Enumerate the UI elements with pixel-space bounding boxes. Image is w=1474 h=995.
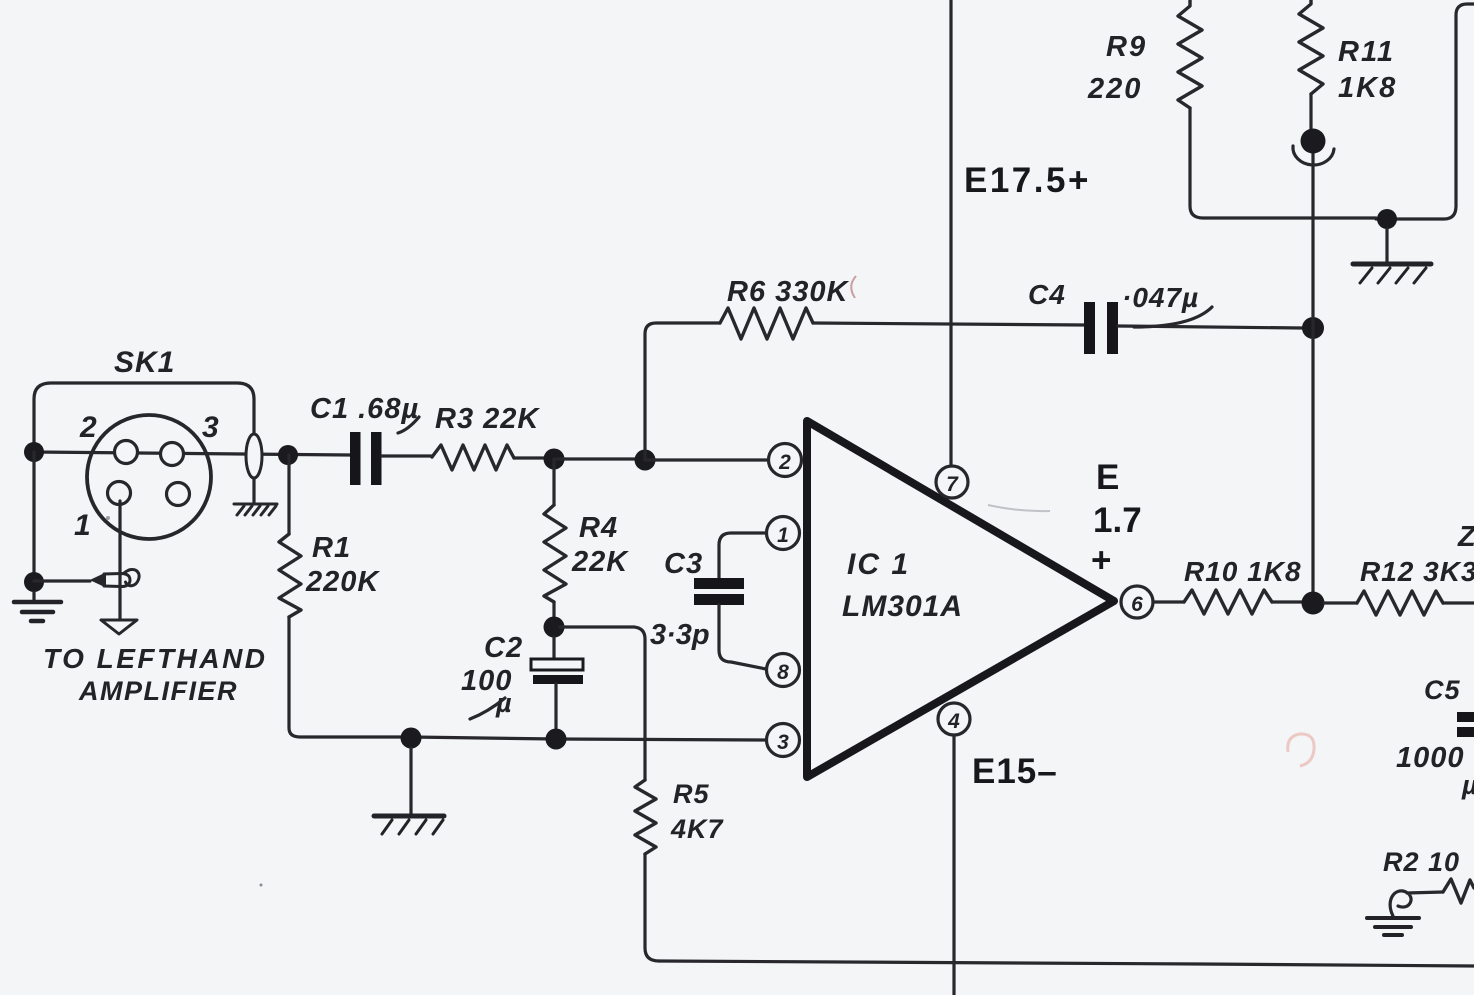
svg-text:C3: C3 bbox=[664, 548, 703, 580]
node C2 bottom junction bbox=[546, 729, 567, 750]
wire R12 to edge bbox=[1443, 601, 1474, 604]
svg-text:3: 3 bbox=[202, 411, 219, 444]
op-amp pin 8 circle bbox=[767, 654, 800, 687]
op-amp pin 7 circle bbox=[936, 466, 968, 498]
svg-text:·047µ: ·047µ bbox=[1122, 282, 1199, 313]
feedthrough bead on SK1 shell lead bbox=[246, 434, 262, 478]
wire pin 4 down bbox=[952, 736, 955, 995]
ground G2 (3-bar) bbox=[14, 602, 61, 621]
connector SK1 pin 1 circle bbox=[108, 482, 131, 505]
svg-text:E15–: E15– bbox=[972, 752, 1058, 791]
paper speck 2 bbox=[106, 516, 110, 520]
resistor R1 bottom lead bbox=[289, 617, 411, 737]
resistor R1 lead bbox=[287, 455, 290, 534]
ground G4 (hatched) bbox=[374, 816, 444, 834]
resistor R4 zigzag bbox=[544, 505, 566, 602]
connector SK1 pin 4 circle bbox=[167, 483, 190, 506]
op-amp pin 2 circle bbox=[769, 444, 802, 477]
wire R3 to node A bbox=[514, 456, 554, 459]
wire C1 to R3 bbox=[382, 454, 432, 457]
wire node B to pin 2 bbox=[645, 458, 769, 461]
svg-text:2: 2 bbox=[79, 411, 97, 444]
capacitor C3 wire to pin 8 bbox=[719, 605, 766, 669]
node A junction bbox=[544, 449, 565, 470]
resistor R2 lead curl bbox=[1390, 891, 1443, 916]
paper speck bbox=[260, 884, 263, 887]
svg-text:R4: R4 bbox=[579, 512, 618, 544]
svg-text:1: 1 bbox=[777, 524, 789, 547]
svg-text:R1: R1 bbox=[312, 532, 351, 564]
wire node A to node B bbox=[554, 457, 645, 460]
wire pin 6 to R10 bbox=[1153, 600, 1184, 603]
svg-text:TO LEFTHAND: TO LEFTHAND bbox=[43, 643, 268, 674]
node C2/R4 junction bbox=[544, 617, 565, 638]
resistor R12 zigzag bbox=[1357, 591, 1443, 615]
svg-text:4K7: 4K7 bbox=[670, 814, 725, 844]
ground G1 (hatched) bbox=[234, 504, 277, 515]
faint pencil mark near pin 7 bbox=[988, 505, 1050, 511]
resistor R2 zigzag (clipped) bbox=[1443, 879, 1474, 903]
svg-text:C5: C5 bbox=[1424, 675, 1461, 705]
wire node E to R12 bbox=[1324, 601, 1357, 604]
op-amp pin 6 circle bbox=[1121, 586, 1153, 618]
svg-text:LM301A: LM301A bbox=[842, 590, 963, 623]
resistor R5 bottom lead bbox=[645, 854, 659, 961]
wire vertical net x1313 bbox=[1311, 141, 1314, 592]
svg-text:R2 10: R2 10 bbox=[1383, 847, 1460, 877]
svg-text:C2: C2 bbox=[484, 632, 523, 664]
resistor R5 zigzag bbox=[635, 780, 656, 854]
svg-text:IC 1: IC 1 bbox=[847, 548, 910, 581]
wire R10 to node E bbox=[1272, 600, 1302, 603]
svg-text:6: 6 bbox=[1131, 593, 1143, 616]
op-amp U1 triangle bbox=[807, 421, 1114, 777]
svg-text:AMPLIFIER: AMPLIFIER bbox=[78, 676, 238, 706]
svg-text:3·3p: 3·3p bbox=[650, 619, 710, 651]
node E junction (output divider) bbox=[1302, 592, 1325, 615]
capacitor C2 top lead bbox=[552, 637, 555, 659]
svg-text:R6 330K: R6 330K bbox=[727, 276, 850, 308]
svg-text:2: 2 bbox=[778, 451, 791, 474]
svg-text:R9: R9 bbox=[1106, 31, 1147, 63]
resistor R10 zigzag bbox=[1184, 590, 1272, 614]
bottom rail bbox=[659, 961, 1474, 966]
svg-text:220K: 220K bbox=[305, 566, 380, 598]
svg-text:E: E bbox=[1096, 458, 1119, 497]
capacitor C2 bottom lead bbox=[554, 684, 557, 728]
node ground tap top-right bbox=[1377, 209, 1397, 229]
svg-text:E17.5+: E17.5+ bbox=[964, 161, 1091, 200]
resistor R4 top lead bbox=[552, 459, 555, 505]
resistor R4 bottom lead bbox=[552, 602, 555, 626]
svg-text:220: 220 bbox=[1087, 73, 1142, 105]
op-amp pin 3 circle bbox=[767, 724, 800, 757]
svg-text:R5: R5 bbox=[673, 779, 710, 809]
wire pin 7 up bbox=[949, 0, 952, 466]
node D junction (C4 out) bbox=[1302, 317, 1324, 339]
svg-text:R10 1K8: R10 1K8 bbox=[1184, 556, 1302, 587]
capacitor C2 top plate (hollow) bbox=[531, 659, 583, 670]
node B junction (feedback tap) bbox=[635, 450, 656, 471]
scan artifact small arc bbox=[851, 276, 856, 298]
svg-text:1: 1 bbox=[74, 509, 91, 542]
op-amp pin 4 circle bbox=[938, 703, 970, 735]
scan artifact pink smudge bbox=[1288, 734, 1314, 766]
svg-text:3: 3 bbox=[777, 731, 789, 754]
svg-text:C1 .68µ: C1 .68µ bbox=[310, 393, 419, 425]
ground G3 stem bbox=[1385, 229, 1388, 262]
resistor R11 zigzag bbox=[1299, 0, 1323, 94]
arc under R11 node bbox=[1293, 146, 1334, 165]
wire C2 node to R5 corner bbox=[560, 627, 645, 780]
ground G4 stem bbox=[409, 748, 412, 814]
resistor R9 bottom lead bbox=[1190, 108, 1376, 218]
capacitor C4 plates bbox=[1084, 302, 1095, 354]
svg-text:1000: 1000 bbox=[1396, 742, 1465, 774]
wire SK1 pin1 lead down bbox=[118, 501, 121, 618]
op-amp pin 1 circle bbox=[767, 517, 800, 550]
svg-text:µ: µ bbox=[1461, 770, 1474, 800]
node after SK1 bbox=[278, 445, 298, 465]
resistor R11 bottom lead bbox=[1309, 94, 1312, 129]
svg-text:1K8: 1K8 bbox=[1338, 72, 1397, 104]
svg-text:22K: 22K bbox=[571, 546, 629, 578]
flourish under C1 value bbox=[398, 417, 419, 433]
capacitor C1 plates bbox=[350, 432, 361, 485]
node ground tap bbox=[401, 728, 422, 749]
ground G2 stem bbox=[32, 592, 35, 601]
wire R6 to C4 bbox=[813, 323, 1084, 325]
capacitor C3 plates bbox=[694, 578, 744, 589]
svg-text:1.7: 1.7 bbox=[1093, 501, 1142, 540]
ground G5 (3-bar) bbox=[1367, 918, 1419, 935]
flourish under C4 value bbox=[1134, 307, 1212, 327]
resistor R9 zigzag bbox=[1178, 0, 1202, 108]
node input-left junction bbox=[24, 442, 44, 462]
resistor R6 zigzag bbox=[720, 308, 813, 339]
wire C4 to node D bbox=[1118, 326, 1302, 328]
wire to phono plug bbox=[34, 579, 90, 582]
capacitor C3 wire from pin 1 bbox=[719, 533, 766, 578]
svg-text:SK1: SK1 bbox=[114, 346, 175, 379]
svg-text:C4: C4 bbox=[1028, 279, 1066, 310]
arrow to left amplifier (open) bbox=[101, 620, 137, 634]
svg-text:R11: R11 bbox=[1338, 36, 1395, 68]
capacitor C5 plates (clipped at edge) bbox=[1457, 712, 1474, 722]
wire left vertical to lower node bbox=[32, 452, 35, 582]
bottom-left rail bbox=[411, 737, 769, 740]
flourish under C2 value bbox=[470, 698, 505, 719]
node lower-left junction bbox=[24, 572, 44, 592]
svg-text:4: 4 bbox=[947, 710, 960, 733]
svg-text:R12 3K3: R12 3K3 bbox=[1360, 556, 1474, 587]
wire input rail left bbox=[34, 452, 350, 455]
wire feedback vertical bbox=[645, 323, 720, 460]
connector SK1 pin 2 circle bbox=[115, 441, 138, 464]
resistor R3 zigzag bbox=[432, 445, 514, 470]
connector SK1 pin 3 circle bbox=[161, 443, 184, 466]
phono plug symbol bbox=[92, 569, 139, 586]
svg-text:8: 8 bbox=[777, 661, 789, 684]
capacitor C2 bottom plate bbox=[533, 675, 583, 684]
svg-text:R3 22K: R3 22K bbox=[435, 403, 540, 435]
wire SK1 top bracket bbox=[34, 383, 254, 452]
connector SK1 shell circle bbox=[87, 415, 211, 539]
wire bead to ground bbox=[252, 478, 255, 502]
svg-text:7: 7 bbox=[946, 473, 959, 496]
ground G3 (hatched) bbox=[1353, 264, 1431, 283]
wire top-right rail bbox=[1376, 4, 1474, 219]
svg-text:+: + bbox=[1091, 541, 1111, 580]
resistor R1 zigzag bbox=[279, 534, 301, 617]
node R11 junction dot bbox=[1301, 129, 1326, 154]
svg-text:Z: Z bbox=[1457, 521, 1474, 553]
